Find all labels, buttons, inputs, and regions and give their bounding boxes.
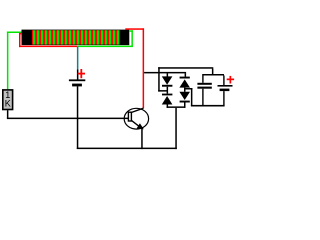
diode D4 triangle — [179, 92, 190, 100]
transformer T1 winding stripes — [32, 30, 120, 44]
wire: bridge AC2 drop to bottom rail — [175, 108, 177, 149]
wire: D4 anode lead — [184, 88, 186, 92]
wire: H1 right drop to cap top wire — [212, 69, 214, 74]
wire: AC input H2 (collector to bridge) — [144, 72, 186, 74]
wire red: primary under-coil run — [19, 46, 77, 48]
wire red: coil right to collector (horizontal) — [125, 28, 144, 30]
capacitor C2 long plate — [218, 85, 233, 87]
wire: C1 bottom lead — [202, 89, 203, 106]
wire teal: coil tap to battery — [77, 46, 79, 69]
battery B1 short plate — [72, 84, 82, 87]
transistor Q1 emitter stroke — [132, 121, 142, 129]
wire: right midnode horizontal — [184, 88, 192, 90]
resistor R1 1K body — [3, 90, 13, 110]
diode D2 triangle — [162, 96, 173, 105]
svg-text:K: K — [5, 99, 11, 109]
wire red: primary left wrap (vertical) — [19, 33, 21, 47]
wire green: resistor to coil left (vertical) — [7, 32, 8, 90]
wire: C1 top lead — [202, 76, 203, 83]
wire red: coil right to collector (vertical) — [143, 28, 145, 108]
wire red: primary left wrap (top stub) — [19, 33, 22, 35]
wire: D1 anode lead — [167, 73, 169, 77]
wire: C2 bottom lead — [223, 91, 224, 105]
wire: D4 cathode lead — [184, 103, 186, 108]
wire: capacitor top wire — [202, 74, 224, 76]
transformer T1 core body — [22, 30, 130, 45]
wire: H1 left drop to left midnode — [158, 67, 160, 91]
wire: bottom rail — [77, 148, 177, 150]
battery B1 long plate — [69, 79, 85, 81]
wire: D2 anode lead — [167, 105, 169, 108]
transistor Q1 emitter arrowhead — [137, 123, 144, 129]
capacitor C2 plus sign — [227, 76, 234, 84]
wire: left column mid segment — [167, 87, 169, 94]
wire: bridge bottom join — [167, 106, 186, 108]
wire green: secondary right wrap (top stub) — [129, 30, 133, 32]
wire green: secondary right wrap (vertical) — [131, 30, 133, 47]
capacitor C1 top plate — [197, 83, 211, 85]
wire green: resistor to coil left (horizontal) — [7, 32, 22, 34]
diode D3 bar — [180, 77, 190, 79]
wire green: secondary under-coil run — [77, 46, 133, 48]
diode D1 bar — [162, 85, 172, 87]
diode D4 bar — [180, 101, 190, 103]
diode D2 bar — [162, 94, 172, 96]
capacitor C1 bottom plate — [197, 87, 211, 89]
wire: D3 cathode lead from H2 — [185, 73, 187, 77]
wire: resistor bottom to transistor base (horizontal) — [7, 118, 129, 120]
wire: battery top lead — [77, 69, 79, 79]
capacitor C2 short thick plate — [220, 89, 230, 92]
battery B1 plus sign — [78, 69, 85, 78]
wire: C2 top lead — [223, 76, 224, 86]
wire: DC+ top rail H1 — [158, 67, 213, 69]
transistor Q1 base bar — [128, 112, 131, 121]
wire: resistor bottom to transistor base (vertical) — [7, 110, 8, 118]
transistor Q1 collector stroke — [132, 108, 144, 112]
diode D3 triangle — [179, 79, 190, 87]
wire: capacitor bottom wire — [191, 105, 225, 107]
diode D1 triangle — [162, 76, 173, 84]
transistor Q1 circle — [124, 108, 148, 129]
wire: left midnode horizontal — [158, 90, 168, 92]
wire: right midnode drop — [191, 88, 193, 106]
wire: emitter down — [141, 129, 143, 150]
wire: battery bottom lead — [77, 86, 79, 149]
